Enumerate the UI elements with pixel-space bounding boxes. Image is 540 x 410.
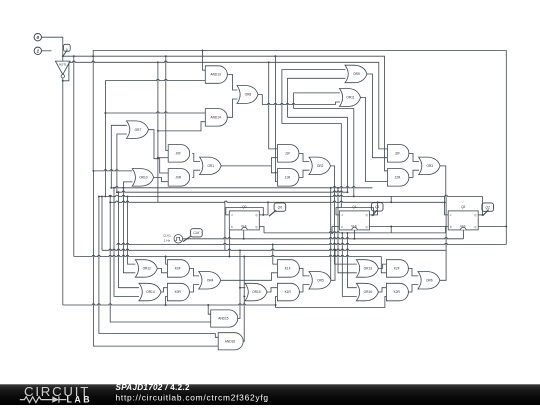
junction AND15.A dot bbox=[207, 304, 209, 306]
junction R3-V6 junction bbox=[157, 61, 159, 63]
svg-text:Q: Q bbox=[366, 213, 368, 217]
junction OR15.B branch dot bbox=[243, 295, 245, 297]
junction OR5 out dot bbox=[330, 187, 332, 189]
wire K1R out to OR5.B bbox=[299, 285, 310, 292]
switch SW1 bbox=[63, 44, 70, 56]
wire R1 to AND13.A bbox=[203, 51, 206, 71]
wire OR15.A branch bbox=[240, 287, 245, 289]
wire K0F.B from OR12 bbox=[157, 268, 167, 272]
flag label Q2 bbox=[482, 203, 494, 211]
AND gate K1F bbox=[277, 260, 299, 278]
wire OR13.B from bus186 bbox=[338, 188, 357, 273]
wire OR5 out up to bus186 bbox=[330, 188, 332, 280]
wire Q2 Qbar to R1 bbox=[478, 226, 506, 228]
OR gate OR9 bbox=[345, 65, 367, 83]
svg-text:0: 0 bbox=[36, 35, 39, 41]
junction K0R.B dot bbox=[165, 304, 167, 306]
AND gate J2R bbox=[387, 169, 409, 187]
junction K1F.A dot bbox=[272, 244, 274, 246]
junction OR15.A branch dot bbox=[239, 287, 241, 289]
wire J0R out to OR1.B bbox=[192, 170, 200, 177]
junction V6-AND14.B junction bbox=[157, 130, 159, 132]
inverter NOT1 bbox=[55, 61, 70, 78]
svg-text:OR1: OR1 bbox=[207, 164, 214, 168]
svg-text:K2R: K2R bbox=[394, 290, 401, 294]
svg-text:OR15: OR15 bbox=[252, 290, 261, 294]
svg-text:K1R: K1R bbox=[285, 290, 292, 294]
wire rail R3 (NOT1 out) bbox=[69, 61, 379, 62]
wire bus y250 left bbox=[101, 196, 103, 250]
junction knot dot 4 bbox=[98, 195, 100, 197]
junction bus250 left top bbox=[101, 195, 103, 197]
OR gate OR8 bbox=[237, 86, 258, 104]
wire clock rail bbox=[183, 238, 464, 239]
wire Q0 clk drop bbox=[243, 230, 245, 239]
OR gate OR6 bbox=[418, 272, 440, 290]
OR gate OR15 bbox=[245, 283, 267, 301]
svg-text:OR4: OR4 bbox=[207, 278, 214, 282]
junction R2-V7 junction bbox=[165, 55, 167, 57]
wire OR15.B branch bbox=[244, 295, 245, 297]
svg-text:J2R: J2R bbox=[395, 175, 401, 179]
JK flip-flop Q1 bbox=[339, 205, 369, 230]
wire lb x127.5 to OR12.A bbox=[128, 196, 136, 264]
wire OR11.B stub bbox=[336, 102, 340, 105]
svg-text:Q0: Q0 bbox=[278, 205, 283, 209]
wire AND14.B from V6 bbox=[158, 122, 205, 131]
svg-text:OR12: OR12 bbox=[143, 267, 152, 271]
wire xv229 bbox=[228, 230, 230, 257]
svg-text:AND16: AND16 bbox=[225, 339, 236, 343]
wire rail R3 to J2F.A bbox=[379, 62, 388, 149]
wire OR16.A from y233 bbox=[348, 233, 357, 288]
clock source CLK1 bbox=[163, 234, 182, 244]
wire NOT1 input bbox=[62, 56, 64, 61]
wire V2 to K2F.B bbox=[381, 257, 386, 273]
OR gate OR12 bbox=[135, 260, 157, 278]
wire OR1 to J1R.A bbox=[272, 166, 278, 173]
junction knot dot 2 bbox=[116, 191, 118, 193]
junction Q1 y202 junction bbox=[390, 201, 392, 203]
wire Q1 Qbar drop bbox=[390, 227, 392, 233]
svg-text:AND14: AND14 bbox=[210, 115, 221, 119]
wire from terminal 0 to switch bbox=[42, 37, 63, 56]
junction Q0 clk junction bbox=[243, 238, 245, 240]
flag pointer Q2 bbox=[483, 210, 489, 216]
junction xv229 dot bbox=[228, 256, 230, 258]
wire bus196 down to Q2 Q node bbox=[481, 196, 483, 215]
wire lb x110.2 to AND15.B bbox=[110, 202, 211, 322]
wire Q1 Qbar to K2 bbox=[369, 226, 445, 228]
flag pointer Q1 bbox=[372, 210, 377, 216]
wire K2R.B loop bbox=[276, 296, 387, 307]
junction Q2 Q node bbox=[481, 214, 483, 216]
wire bus y244 bbox=[116, 243, 506, 244]
wire xv224 bbox=[224, 202, 226, 250]
wire K2R out to OR6.B bbox=[408, 285, 418, 292]
svg-text:CLK1: CLK1 bbox=[163, 234, 171, 238]
svg-text:1: 1 bbox=[36, 49, 39, 55]
junction lb x93 top bbox=[92, 170, 94, 172]
junction knot dot 3 bbox=[104, 195, 106, 197]
junction v347 end dot bbox=[347, 191, 349, 193]
wire OR2 out to OR13.A bbox=[331, 166, 357, 264]
svg-text:J1R: J1R bbox=[285, 175, 291, 179]
wire OR13 out to K2F.A bbox=[378, 264, 386, 268]
wire AND16 out riser / OR15.B bbox=[243, 257, 244, 342]
wire fb bus y196 bbox=[99, 195, 483, 196]
svg-text:OR14: OR14 bbox=[146, 290, 155, 294]
svg-text:K0R: K0R bbox=[175, 290, 182, 294]
junction Q1 to bus202 bbox=[377, 201, 379, 203]
junction R2-R1 junction bbox=[92, 55, 94, 57]
AND gate K2R bbox=[386, 283, 408, 301]
wire OR15 out to K1R.A bbox=[267, 288, 277, 292]
wire x446 segment bbox=[445, 196, 447, 238]
OR gate OR14 bbox=[139, 283, 161, 301]
svg-text:K: K bbox=[341, 225, 343, 229]
wire rail R3 vertical part bbox=[63, 62, 69, 81]
wire J0F.B from V6 net bbox=[158, 157, 168, 159]
wire lb x93 to AND16.B bbox=[93, 171, 218, 346]
svg-text:Q: Q bbox=[255, 225, 257, 229]
wire OR1 out fork bbox=[221, 165, 271, 167]
wire J2F out to OR3.A bbox=[409, 153, 419, 161]
svg-text:OR8: OR8 bbox=[245, 93, 252, 97]
svg-text:CLK: CLK bbox=[193, 231, 200, 235]
wire OR1 to J1F.B bbox=[272, 158, 278, 166]
wire Q2 Q out bbox=[478, 214, 482, 216]
terminal 0 bbox=[34, 34, 41, 42]
junction AND16 riser dot bbox=[243, 256, 245, 258]
wire J1R out to OR2.B bbox=[299, 170, 310, 177]
wire V3 to OR10.A bbox=[93, 170, 132, 171]
wire Q2 clk stub bbox=[463, 230, 465, 239]
wire Q2 J stub to bus196 bbox=[445, 196, 449, 215]
junction OR5 out dot bbox=[334, 249, 336, 251]
junction NOT1 output node bbox=[62, 80, 64, 82]
junction lb x127.5 top bbox=[127, 195, 129, 197]
OR gate OR5 bbox=[309, 272, 331, 290]
wire V3 vertical bbox=[92, 56, 94, 171]
svg-text:J1F: J1F bbox=[285, 151, 290, 155]
wire AND14 out to OR8.B bbox=[227, 99, 237, 117]
junction V6-J0F.B junction bbox=[157, 157, 159, 159]
wire knot drop x110.2 bbox=[109, 196, 111, 202]
wire rail R1 (top) bbox=[93, 51, 506, 227]
junction knot dot 5 bbox=[122, 187, 124, 189]
svg-text:OR6: OR6 bbox=[426, 278, 433, 282]
wire Q0 Qbar stub bbox=[259, 227, 264, 233]
wire V2 bottom run bbox=[74, 255, 382, 256]
wire lb x114 to OR14.B bbox=[114, 188, 139, 297]
junction v353 end dot bbox=[353, 195, 355, 197]
junction lb x114 top bbox=[113, 187, 115, 189]
junction knot dot 1 bbox=[110, 187, 112, 189]
junction OR16.A dot bbox=[347, 232, 349, 234]
flag pointer CLK bbox=[183, 236, 191, 241]
svg-text:Q: Q bbox=[474, 225, 476, 229]
OR gate OR16 bbox=[356, 283, 378, 301]
wire fb bus y192 bbox=[117, 191, 348, 192]
AND gate J0F bbox=[168, 145, 190, 163]
wire feedback to AND13.B bbox=[105, 79, 205, 80]
svg-text:J2F: J2F bbox=[395, 151, 400, 155]
junction OR13.B dot bbox=[337, 187, 339, 189]
wire feedback to AND14.A bbox=[105, 112, 205, 113]
wire Q1 y196 drop bbox=[390, 196, 392, 202]
OR gate OR1 bbox=[200, 157, 222, 175]
wire OR10.B input bbox=[123, 182, 132, 188]
svg-text:SPAJD1702 / 4.2.2: SPAJD1702 / 4.2.2 bbox=[116, 383, 190, 392]
wire AND15.A drop bbox=[208, 305, 211, 314]
wire OR8 to OR11.B run bbox=[262, 103, 335, 104]
wire OR5 out up bbox=[331, 250, 336, 280]
svg-text:OR3: OR3 bbox=[426, 164, 433, 168]
wire lb x118.5 to OR14.A bbox=[119, 192, 140, 288]
svg-text:K0F: K0F bbox=[175, 267, 181, 271]
wire K0F.A drop bbox=[166, 257, 168, 265]
svg-text:http://circuitlab.com/ctrcm2f3: http://circuitlab.com/ctrcm2f362yfg bbox=[116, 392, 269, 402]
svg-text:OR13: OR13 bbox=[364, 267, 373, 271]
svg-text:Q: Q bbox=[474, 213, 476, 217]
svg-text:AND15: AND15 bbox=[218, 317, 229, 321]
wire OR4 out to K1F.B bbox=[221, 273, 278, 281]
CircuitLab logo bbox=[20, 384, 92, 404]
wire V6 vertical bbox=[157, 62, 159, 202]
wire feedback to OR11.A bbox=[294, 93, 340, 109]
flag label Q1 bbox=[371, 203, 383, 211]
junction Q0 Q node bbox=[262, 214, 264, 216]
junction switch common node bbox=[62, 55, 64, 57]
flag label CLK bbox=[191, 229, 203, 237]
wire riser to K1R.B bbox=[276, 296, 278, 305]
AND gate AND16 bbox=[218, 333, 243, 350]
svg-text:AND13: AND13 bbox=[210, 73, 221, 77]
svg-text:K1F: K1F bbox=[285, 267, 291, 271]
svg-text:K: K bbox=[450, 225, 452, 229]
wire loop 293.6 horizontal bbox=[294, 109, 354, 197]
junction lb x118.5 top bbox=[118, 191, 120, 193]
wire lb x123.4 to OR12.B bbox=[123, 188, 135, 273]
wire OR3 out down bbox=[440, 166, 446, 197]
wire V7 vertical to J0F.A bbox=[166, 56, 168, 150]
wire K2 riser bbox=[446, 227, 449, 233]
wire NOT1 output down bbox=[62, 78, 64, 81]
AND gate K0R bbox=[167, 283, 189, 301]
AND gate AND15 bbox=[211, 310, 238, 327]
wire R1 down bbox=[505, 227, 507, 245]
wire OR7 out to J0R.A bbox=[148, 130, 168, 173]
svg-text:J0R: J0R bbox=[175, 175, 181, 179]
wire K1 riser bbox=[332, 227, 339, 233]
OR gate OR10 bbox=[132, 169, 154, 187]
svg-text:J0F: J0F bbox=[176, 151, 181, 155]
AND gate K2F bbox=[386, 260, 408, 278]
wire Q0 J loop bbox=[226, 208, 263, 215]
wire OR7.B input bbox=[117, 134, 127, 192]
wire feedback to OR9.A bbox=[282, 70, 346, 124]
junction lb x110.2 top bbox=[109, 201, 111, 203]
wire AND15 out riser / OR15.A bbox=[238, 250, 240, 318]
wire lb x98.9 to AND16.A bbox=[99, 196, 218, 337]
wire rail R2 bbox=[63, 56, 388, 171]
junction R1-AND13 junction bbox=[202, 50, 204, 52]
wire feedback to OR9.B bbox=[288, 78, 346, 117]
svg-text:NOT1: NOT1 bbox=[59, 63, 67, 67]
wire K0F out to OR4.A bbox=[189, 268, 199, 276]
wire AND13 out to OR8.A bbox=[227, 75, 237, 91]
junction R3 to J1F junction bbox=[268, 61, 270, 63]
OR gate OR2 bbox=[309, 157, 331, 175]
AND gate K0F bbox=[167, 260, 189, 278]
wire fb bus y187 bbox=[111, 187, 372, 188]
JK flip-flop Q0 bbox=[229, 205, 259, 230]
wire loop 287.5 horizontal bbox=[288, 117, 348, 192]
wire loop 281.9 horizontal bbox=[282, 124, 341, 208]
OR gate OR3 bbox=[419, 157, 441, 175]
wire K2F out to OR6.A bbox=[408, 268, 418, 276]
wire stub from terminal 1 bbox=[42, 50, 52, 52]
svg-text:Q: Q bbox=[255, 213, 257, 217]
flag pointer Q0 bbox=[269, 210, 276, 216]
wire V1 NOT1 vertical bbox=[62, 81, 64, 305]
wire J0F out to OR1.A bbox=[192, 153, 200, 161]
AND gate K1R bbox=[277, 283, 299, 301]
junction Q1 clk junction bbox=[353, 238, 355, 240]
svg-text:OR11: OR11 bbox=[346, 96, 354, 100]
junction K0F.A dot bbox=[165, 256, 167, 258]
junction Q1 Qbar dot bbox=[390, 226, 392, 228]
OR gate OR7 bbox=[127, 121, 149, 138]
svg-text:OR5: OR5 bbox=[317, 278, 324, 282]
wire K0R.A from OR14 bbox=[161, 288, 168, 292]
wire Q0 Q out bbox=[259, 202, 268, 215]
wire OR9 out to J2F.B bbox=[367, 74, 388, 158]
svg-text:1 Hz: 1 Hz bbox=[164, 239, 171, 243]
wire feedback riser x105 bbox=[104, 81, 106, 197]
AND gate J2F bbox=[387, 145, 409, 163]
wire OR16 out to K2R.A bbox=[378, 288, 386, 292]
svg-text:LAB: LAB bbox=[67, 394, 93, 404]
wire K0R out to OR4.B bbox=[189, 285, 199, 292]
junction OR16.B dot bbox=[341, 232, 343, 234]
wire fb bus y202 bbox=[110, 201, 446, 202]
svg-text:OR7: OR7 bbox=[135, 128, 142, 132]
AND gate AND14 bbox=[205, 109, 227, 127]
wire OR8 out jog bbox=[258, 95, 262, 105]
terminal 1 bbox=[34, 47, 41, 55]
junction AND15 riser dot bbox=[239, 249, 241, 251]
wire R2 to J1R.B bbox=[275, 56, 277, 181]
junction K1 riser dot bbox=[331, 232, 333, 234]
wire Qbar bus y233 bbox=[264, 232, 446, 233]
wire K1F out to OR5.A bbox=[299, 268, 310, 276]
wire R3 to J1F.A bbox=[269, 62, 278, 149]
junction R2-V2 junction bbox=[73, 55, 75, 57]
wire OR7.A input bbox=[111, 125, 127, 188]
JK flip-flop Q2 bbox=[448, 205, 478, 230]
flag label Q0 bbox=[274, 203, 286, 211]
svg-text:Q2: Q2 bbox=[461, 205, 465, 209]
junction Q2 Qbar-R1 junction bbox=[505, 226, 507, 228]
svg-text:OR10: OR10 bbox=[139, 175, 148, 179]
AND gate J1R bbox=[277, 169, 299, 187]
wire bus y250 bbox=[102, 249, 446, 250]
OR gate OR13 bbox=[356, 260, 378, 278]
AND gate J0R bbox=[168, 169, 190, 187]
junction knot dot 6 bbox=[109, 195, 111, 197]
junction Q1 Q node bbox=[372, 214, 374, 216]
junction Q0 to bus202 bbox=[267, 201, 269, 203]
OR gate OR11 bbox=[340, 89, 361, 107]
wire K1F.A drop bbox=[273, 245, 278, 265]
AND gate AND13 bbox=[205, 66, 227, 84]
svg-text:Q: Q bbox=[366, 225, 368, 229]
wire OR6 out riser bbox=[440, 239, 446, 280]
AND gate J1F bbox=[277, 145, 299, 163]
wire V2 left vertical bbox=[73, 56, 75, 256]
wire J1F out to OR2.A bbox=[299, 153, 310, 161]
wire OR16.B from y233 bbox=[342, 233, 357, 297]
wire J2R out to OR3.B bbox=[409, 170, 419, 177]
svg-text:K: K bbox=[231, 225, 233, 229]
wire OR11 out to J2R.B bbox=[361, 98, 388, 182]
svg-text:K2F: K2F bbox=[394, 267, 400, 271]
junction loop dot bbox=[275, 304, 277, 306]
wire Q1 J loop bbox=[336, 208, 373, 215]
svg-text:OR9: OR9 bbox=[353, 72, 360, 76]
svg-text:OR2: OR2 bbox=[317, 164, 324, 168]
junction branch AND14.A bbox=[104, 112, 106, 114]
junction R2 to J1R junction bbox=[274, 55, 276, 57]
wire V1 bottom run y305 bbox=[63, 304, 276, 305]
wire Q1 Q out bbox=[369, 202, 377, 215]
OR gate OR4 bbox=[199, 272, 221, 290]
wire K0R.B riser from loop bbox=[166, 296, 168, 305]
svg-text:OR16: OR16 bbox=[364, 290, 373, 294]
wire Q1 clk drop bbox=[353, 230, 355, 239]
svg-text:Q2: Q2 bbox=[485, 205, 490, 209]
wire OR10 out to J0R.B bbox=[154, 177, 169, 181]
